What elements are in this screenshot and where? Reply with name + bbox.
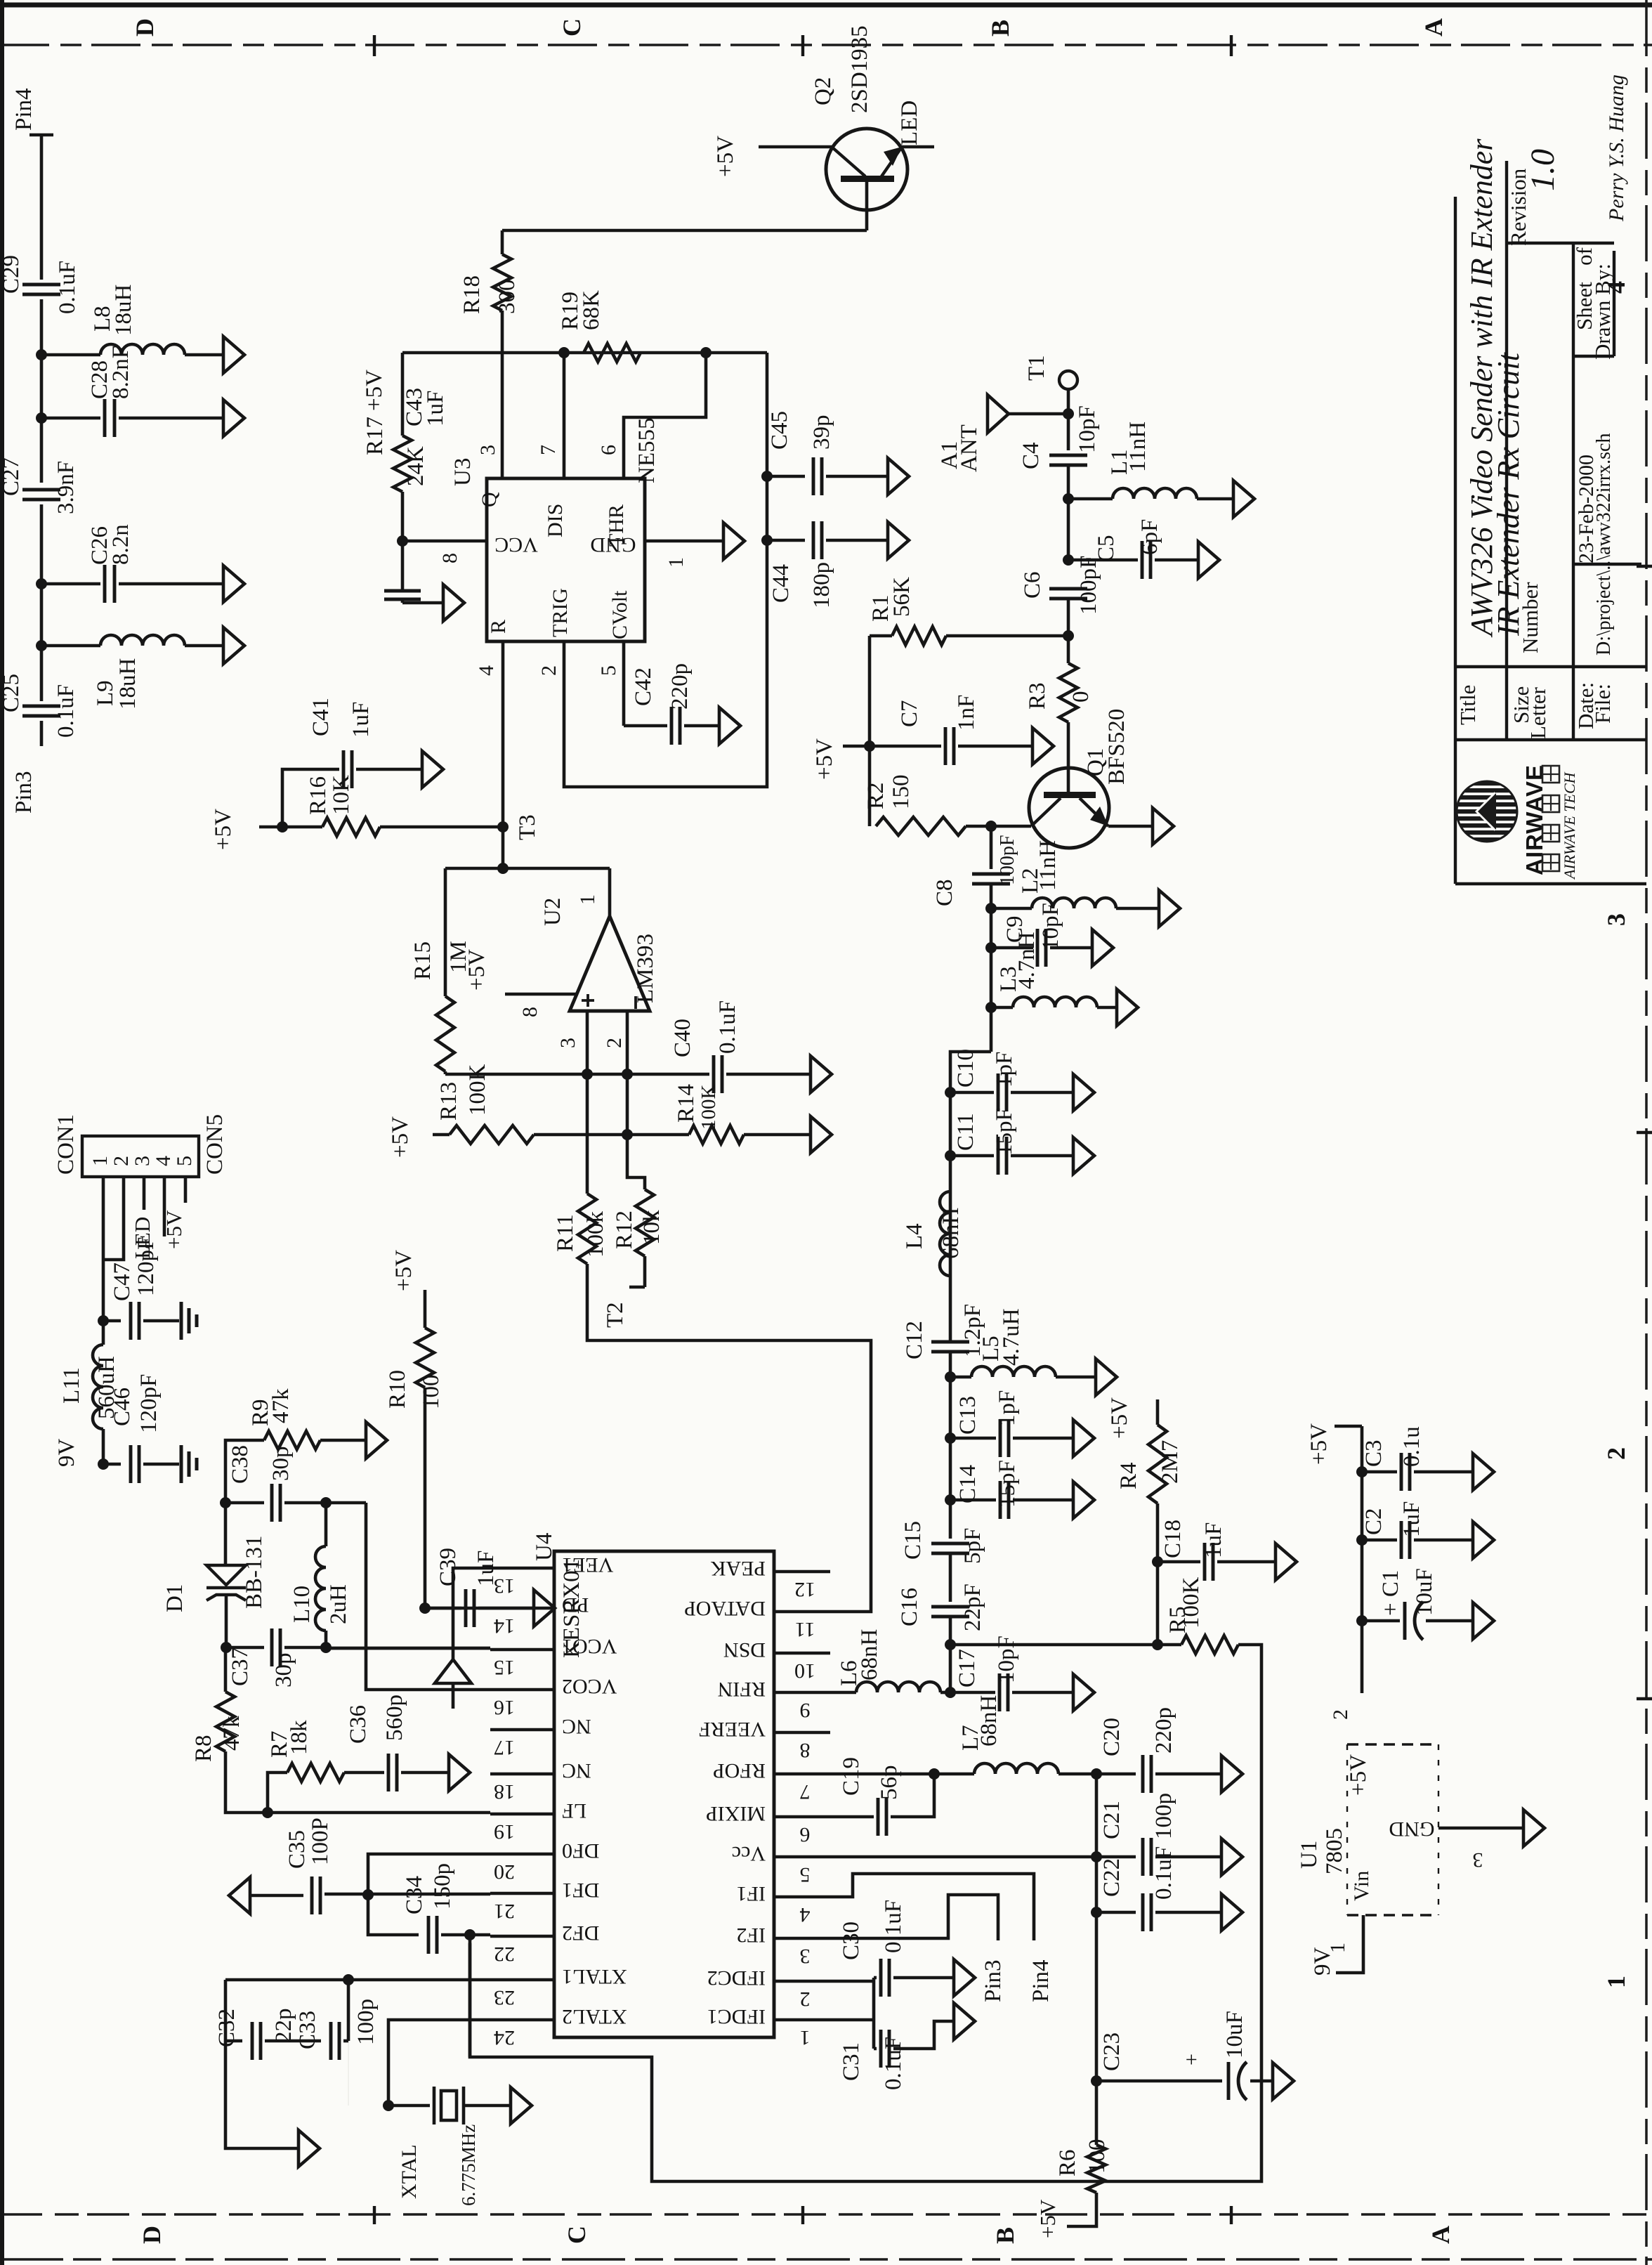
ground arrow L3 [1117, 989, 1138, 1026]
svg-text:3.9nF: 3.9nF [53, 461, 79, 514]
svg-text:0.1uF: 0.1uF [55, 261, 80, 314]
svg-text:RFIN: RFIN [718, 1678, 766, 1701]
node L8 tap junction [36, 349, 47, 360]
svg-text:8: 8 [518, 1007, 542, 1017]
svg-text:Pin4: Pin4 [11, 88, 37, 131]
svg-text:C16: C16 [897, 1588, 922, 1626]
capacitor C10 1pF [997, 1073, 1000, 1111]
ground arrow L8 [223, 337, 244, 373]
svg-text:0: 0 [1068, 691, 1094, 703]
ground arrow pin1 [723, 523, 745, 559]
wire C5 branch [1068, 559, 1138, 562]
pin 21 DF1 stub [490, 1892, 554, 1895]
wire VCO1 to varactor net [326, 1647, 490, 1650]
ground arrow C28 [223, 400, 244, 436]
border frame right edge dashed line [1645, 0, 1648, 2265]
wire pin3 input [586, 1011, 589, 1074]
svg-text:L11: L11 [59, 1367, 84, 1404]
wire IF1 to Pin4 path [830, 1874, 1034, 1940]
capacitor C29 [22, 283, 60, 287]
pin 15 VCO1 stub [490, 1648, 554, 1652]
svg-text:A: A [1420, 18, 1448, 37]
ground arrow C2 [1473, 1522, 1494, 1558]
capacitor C17 10pF [998, 1673, 1002, 1711]
svg-text:C35: C35 [284, 1830, 310, 1869]
capacitor C25 0.1uF [22, 705, 60, 708]
svg-text:10pF: 10pF [994, 1636, 1019, 1683]
wire R7 stem [268, 1773, 287, 1813]
node C41 junction [277, 821, 288, 833]
svg-text:C46: C46 [110, 1388, 135, 1426]
svg-text:T2: T2 [603, 1302, 628, 1328]
ground arrow C22 [1221, 1894, 1243, 1931]
wire C16 to L6 node [949, 1617, 952, 1692]
svg-text:C12: C12 [902, 1321, 927, 1359]
svg-text:C33: C33 [295, 2011, 320, 2049]
wire L1 branch [1068, 497, 1113, 501]
ground arrow C36 [449, 1754, 470, 1791]
pin 2 IFDC2 stub [774, 1980, 830, 1983]
svg-text:D: D [131, 18, 159, 37]
wire VEE1 to up-arrow [453, 1568, 490, 1659]
svg-text:D1: D1 [162, 1584, 188, 1612]
svg-text:18: 18 [494, 1780, 515, 1803]
ground arrow U1 GND [1523, 1810, 1545, 1846]
wire pin2 jog to R12 [627, 1135, 645, 1189]
capacitor C44 180p [812, 521, 815, 559]
wire +5V to R10 [424, 1290, 427, 1328]
svg-text:10k: 10k [639, 1210, 664, 1245]
svg-text:11nH: 11nH [1035, 840, 1061, 891]
capacitor C43 1uF [401, 541, 405, 591]
capacitor C41 1uF [342, 750, 346, 788]
svg-text:5: 5 [597, 665, 620, 676]
svg-text:PEAK: PEAK [710, 1557, 766, 1580]
svg-text:C22: C22 [1099, 1858, 1125, 1897]
svg-text:C40: C40 [670, 1019, 695, 1057]
ground arrow C5 [1198, 542, 1219, 578]
svg-text:DIS: DIS [544, 504, 567, 537]
svg-text:R15: R15 [410, 941, 435, 980]
wire R8 to LF row [225, 1751, 490, 1813]
capacitor C5 6pF [1141, 541, 1144, 579]
svg-text:C18: C18 [1160, 1520, 1186, 1558]
svg-text:2: 2 [1602, 1447, 1630, 1460]
svg-text:1uF: 1uF [473, 1551, 499, 1586]
svg-text:BFS520: BFS520 [1104, 709, 1129, 785]
svg-text:R12: R12 [612, 1210, 637, 1249]
capacitor C42 220p [670, 707, 674, 745]
resistor R11 100k [578, 1194, 596, 1264]
AIRWAVE logo globe [1457, 781, 1517, 842]
svg-text:+5V: +5V [713, 136, 738, 177]
pin 22 DF2 stub [490, 1935, 554, 1938]
svg-text:Perry Y.S. Huang: Perry Y.S. Huang [1605, 74, 1628, 222]
svg-text:T1: T1 [1024, 355, 1049, 381]
svg-text:10uF: 10uF [1222, 2011, 1247, 2058]
title block horizontal line below size-row [1455, 738, 1646, 741]
ground arrow C43 [443, 585, 464, 621]
node C23 junction [1091, 2075, 1102, 2087]
resistor R19 68K [584, 344, 641, 362]
node C2 junction [1356, 1534, 1368, 1546]
svg-text:1: 1 [664, 557, 688, 568]
svg-text:+5V: +5V [391, 1250, 417, 1291]
wire +5V rail down to U1 [1361, 1426, 1364, 1693]
wire ANT branch [1009, 412, 1068, 416]
node C18 junction [1152, 1556, 1163, 1567]
resistor R15 1M [444, 868, 447, 996]
svg-text:+5V: +5V [1306, 1423, 1332, 1465]
wire C37 row [226, 1646, 264, 1650]
ground arrow C35 left [229, 1877, 250, 1914]
svg-text:C42: C42 [631, 667, 656, 706]
svg-text:GND: GND [1389, 1817, 1435, 1841]
wire chain jog to C10 column [950, 1052, 991, 1342]
node T3 junction [497, 821, 509, 833]
svg-text:CVolt: CVolt [608, 590, 631, 639]
connector CON1 CON5 body [82, 1136, 199, 1177]
resistor R16 10K [322, 818, 380, 836]
svg-text:R18: R18 [459, 275, 485, 314]
svg-text:100: 100 [419, 1375, 444, 1410]
node DIS pin7 junction [558, 347, 570, 358]
node C3 junction [1356, 1466, 1368, 1477]
capacitor C31 0.1uF [874, 2047, 877, 2051]
wire L10 VCO1 row [326, 1647, 490, 1650]
capacitor C46 120pF [129, 1445, 133, 1483]
inductor L10 2uH vertical [324, 1503, 328, 1546]
svg-text:T3: T3 [515, 814, 540, 840]
resistor R2 150 [876, 817, 966, 835]
svg-text:100K: 100K [1179, 1577, 1204, 1629]
svg-text:L4: L4 [902, 1223, 927, 1249]
ground arrow XTAL1 leg [299, 2130, 320, 2167]
capacitor C33 100p [295, 2039, 321, 2043]
svg-text:19: 19 [494, 1820, 515, 1843]
svg-text:Drawn By:: Drawn By: [1590, 263, 1615, 360]
svg-text:C2: C2 [1361, 1508, 1386, 1535]
svg-text:1: 1 [88, 1156, 112, 1166]
capacitor C27 3.9nF [22, 488, 60, 492]
wire C9 branch [991, 946, 1033, 950]
node L6 C17 junction [945, 1687, 956, 1698]
capacitor C30 0.1uF [874, 1976, 877, 1980]
svg-text:L10: L10 [289, 1586, 315, 1623]
capacitor C47 120pF [129, 1302, 133, 1340]
wire IFDC2 row [830, 1980, 874, 1983]
capacitor C39 1uF [464, 1589, 468, 1627]
wire L3 branch [991, 1006, 1013, 1010]
node pin4-R junction on U2 rail [497, 863, 509, 874]
inductor L4 68nH vertical [950, 1175, 951, 1192]
wire +5V to R16 [259, 825, 322, 829]
svg-text:39p: 39p [809, 415, 834, 450]
wire L5 branch [950, 1376, 971, 1379]
wire L5 to arrow [1056, 1376, 1096, 1379]
ground arrow C39 [534, 1590, 555, 1626]
svg-text:5: 5 [173, 1156, 196, 1166]
capacitor C38 30p [270, 1484, 274, 1522]
node L1 junction [1063, 493, 1074, 504]
border frame left edge line [0, 0, 4, 2265]
svg-text:100K: 100K [465, 1064, 490, 1116]
svg-text:100P: 100P [308, 1817, 333, 1865]
wire rail C20 to C23 [1095, 1774, 1099, 2081]
wire C20 branch [1096, 1773, 1136, 1776]
ground arrow C44 [888, 522, 909, 559]
svg-text:Vin: Vin [1350, 1871, 1373, 1901]
node L2 junction [985, 903, 997, 914]
wire C28 to arrow [119, 417, 223, 420]
ground arrow C41 [422, 751, 443, 788]
svg-text:CON1: CON1 [53, 1114, 79, 1175]
wire VCC pin8 [402, 540, 487, 543]
wire pin7 stub [563, 353, 566, 478]
svg-text:4: 4 [475, 665, 498, 676]
svg-text:16: 16 [494, 1696, 515, 1719]
svg-text:100k: 100k [583, 1211, 608, 1258]
node XTAL1 C33 junction [343, 1974, 354, 1985]
wire C19 to RFOP node [891, 1774, 934, 1817]
pin 18 NC stub [490, 1773, 554, 1776]
svg-text:C47: C47 [110, 1262, 135, 1301]
wire Vcc row [830, 1855, 1096, 1859]
node C19 top junction [929, 1768, 940, 1780]
ground arrow C45 [888, 458, 909, 495]
svg-text:0.1uF: 0.1uF [715, 1000, 740, 1054]
svg-text:+5V: +5V [1107, 1397, 1132, 1439]
svg-text:R14: R14 [674, 1084, 699, 1123]
node C37 left junction [221, 1642, 232, 1653]
svg-text:120pF: 120pF [136, 1374, 162, 1433]
capacitor C34 150p [427, 1916, 431, 1954]
ground symbol C46 [180, 1445, 183, 1483]
svg-text:1uF: 1uF [348, 702, 374, 738]
svg-text:180p: 180p [809, 562, 834, 608]
wire DF2 drop to bottom run [468, 1935, 472, 2057]
svg-text:4.7nH: 4.7nH [1014, 932, 1040, 989]
svg-text:C25: C25 [0, 674, 24, 712]
wire IFDC rail [872, 1978, 876, 2049]
wire C38 node to VCO2 riser [326, 1501, 366, 1505]
svg-text:1uF: 1uF [1201, 1522, 1226, 1558]
op-amp minus input mark [634, 996, 637, 1009]
wire XTAL1 row [225, 1978, 490, 1982]
svg-text:+5V: +5V [464, 949, 490, 991]
svg-text:100: 100 [1084, 2139, 1110, 2174]
node C5 junction [1063, 554, 1074, 566]
node C38 right junction [320, 1497, 332, 1508]
svg-text:C13: C13 [955, 1396, 981, 1435]
svg-text:8: 8 [438, 553, 461, 563]
svg-text:DF1: DF1 [562, 1879, 599, 1902]
svg-text:C8: C8 [932, 879, 957, 906]
svg-text:6: 6 [597, 445, 620, 455]
svg-text:68nH: 68nH [938, 1208, 964, 1259]
wire XTAL row [348, 2041, 349, 2106]
svg-text:30p: 30p [271, 1653, 296, 1688]
wire chain to R5 [950, 1643, 1181, 1647]
border frame bottom inner dashed line [0, 2213, 1652, 2216]
svg-text:100K: 100K [697, 1085, 720, 1130]
wire XTAL2 drop [388, 2020, 490, 2106]
wire C15 to C16 [949, 1553, 952, 1602]
node C1 junction [1356, 1615, 1368, 1626]
svg-text:2: 2 [603, 1038, 626, 1048]
wire RFOP row [830, 1773, 974, 1776]
wire L3 to arrow [1097, 1006, 1117, 1010]
svg-text:XTAL2: XTAL2 [562, 2005, 627, 2028]
svg-text:3: 3 [1602, 913, 1630, 926]
svg-text:15pF: 15pF [995, 1460, 1020, 1508]
wire R1 left leg [870, 634, 892, 638]
svg-text:68nH: 68nH [976, 1695, 1002, 1747]
ground arrow C14 [1073, 1482, 1094, 1518]
wire R13 to pin2 node [534, 1133, 627, 1137]
wire MIXIP row to C19 [830, 1815, 874, 1819]
capacitor C15 5pF [931, 1542, 969, 1546]
resistor R13 100K [450, 1125, 534, 1144]
svg-text:8.2n: 8.2n [108, 524, 133, 565]
node R1-R3 junction [1063, 630, 1074, 641]
svg-text:150: 150 [889, 775, 914, 810]
wire C42 branch [624, 724, 667, 728]
svg-text:B: B [991, 2227, 1019, 2244]
svg-text:+5V: +5V [812, 738, 837, 780]
power +5V Q2 collector [759, 145, 832, 149]
logo chinese company name glyph blocks [1542, 766, 1559, 871]
pin 6 MIXIP stub [774, 1815, 830, 1819]
wire DIS node horizontal bus [402, 351, 767, 355]
svg-text:XTAL: XTAL [398, 2144, 421, 2199]
svg-text:100p: 100p [353, 1999, 379, 2045]
svg-text:+5V: +5V [162, 1210, 186, 1249]
ground arrow C40 [811, 1056, 832, 1092]
svg-text:U4: U4 [532, 1533, 557, 1561]
svg-text:Q2: Q2 [811, 77, 836, 105]
resistor R7 18k [287, 1763, 344, 1782]
wire +5V rail tick [1335, 1425, 1362, 1428]
zone tick bottom C-D [373, 2206, 376, 2224]
pin 19 LF stub [490, 1813, 554, 1816]
wire C12 to C15 [949, 1352, 952, 1539]
svg-text:4: 4 [152, 1156, 175, 1166]
resistor R3 0 [1059, 663, 1077, 722]
svg-text:100pF: 100pF [1076, 556, 1101, 615]
svg-text:3: 3 [476, 445, 499, 455]
ground arrow L5 [1096, 1359, 1117, 1395]
wire R11 to U4 DATAOP long run [587, 1264, 871, 1612]
svg-text:C45: C45 [767, 411, 792, 450]
svg-text:9V: 9V [1310, 1947, 1335, 1976]
capacitor C35 100P [310, 1876, 314, 1914]
svg-text:VCC: VCC [494, 533, 538, 556]
svg-text:1: 1 [1602, 1976, 1630, 1988]
wire R8 stem [224, 1647, 228, 1692]
ground arrow R14 [811, 1116, 832, 1153]
ground arrow C3 [1473, 1454, 1494, 1490]
svg-text:C20: C20 [1099, 1718, 1125, 1756]
svg-text:C36: C36 [346, 1705, 371, 1744]
capacitor C32 22p [225, 2039, 242, 2043]
ground arrow C1 [1473, 1603, 1494, 1639]
svg-text:C29: C29 [0, 255, 24, 294]
wire C13 branch [950, 1437, 996, 1440]
IC U4 KESRX01 body [554, 1551, 774, 2037]
wire GND pin3 [1438, 1827, 1523, 1830]
svg-text:17: 17 [494, 1736, 515, 1759]
wire C8 to L2 node [990, 884, 993, 1052]
border frame top outer line [0, 3, 1652, 8]
svg-text:9: 9 [800, 1699, 811, 1722]
wire C26 to arrow [119, 582, 223, 586]
pin 3 IF2 stub [774, 1937, 830, 1940]
inductor L5 4.7uH [971, 1366, 1056, 1377]
node VCC junction [397, 535, 408, 547]
node C28 tap junction [36, 412, 47, 424]
wire L8 to arrow [185, 353, 223, 357]
svg-text:47k: 47k [268, 1388, 294, 1423]
node C22 junction [1091, 1907, 1102, 1918]
svg-text:120pF: 120pF [133, 1237, 159, 1296]
pin 17 NC stub [490, 1728, 554, 1732]
svg-text:2: 2 [110, 1156, 133, 1166]
svg-text:C34: C34 [402, 1876, 427, 1914]
wire C47 branch [103, 1319, 121, 1323]
svg-text:B: B [986, 20, 1014, 37]
wire L11 to C46 node [102, 1429, 105, 1464]
node C10 junction [945, 1087, 956, 1098]
svg-text:10pF: 10pF [1038, 903, 1063, 951]
svg-text:IF1: IF1 [736, 1882, 766, 1905]
title block line under revision box [1507, 242, 1614, 244]
svg-text:D: D [138, 2226, 166, 2244]
wire R7 to C36 [344, 1771, 384, 1775]
svg-text:6pF: 6pF [1137, 519, 1162, 555]
ground arrow C10 [1073, 1074, 1094, 1111]
wire C41 branch [282, 769, 339, 827]
wire L2 to arrow [1116, 907, 1159, 910]
wire L9 to arrow [185, 644, 223, 648]
svg-text:VEERF: VEERF [699, 1718, 766, 1741]
node C21 junction [1091, 1851, 1102, 1862]
pin 1 IFDC1 stub [774, 2018, 830, 2022]
node PD junction [419, 1603, 431, 1614]
zone tick right 2-3 [1637, 1131, 1652, 1134]
resistor R17 24K [401, 353, 405, 436]
svg-text:U1: U1 [1297, 1841, 1322, 1869]
svg-text:1pF: 1pF [995, 1390, 1020, 1426]
wire L9 branch [41, 644, 100, 648]
wire C17 branch [950, 1691, 995, 1695]
wire Vin pin1 [1336, 1915, 1363, 1973]
title block line between title and data columns [1505, 161, 1508, 740]
svg-text:4.7uH: 4.7uH [999, 1308, 1024, 1366]
svg-text:24: 24 [494, 2026, 515, 2049]
svg-text:VCO1: VCO1 [562, 1635, 617, 1658]
svg-text:DSN: DSN [723, 1638, 766, 1662]
svg-text:22p: 22p [271, 2009, 296, 2044]
svg-text:R10: R10 [385, 1370, 410, 1409]
node C47 junction [98, 1315, 109, 1326]
resistor R18 300 [501, 230, 504, 254]
crystal XTAL 6.775MHz [433, 2087, 436, 2124]
svg-text:BB-131: BB-131 [242, 1535, 267, 1609]
transistor Q2 2SD1935 [826, 129, 907, 210]
node C8 junction [985, 821, 997, 832]
node L9 tap junction [36, 640, 47, 651]
